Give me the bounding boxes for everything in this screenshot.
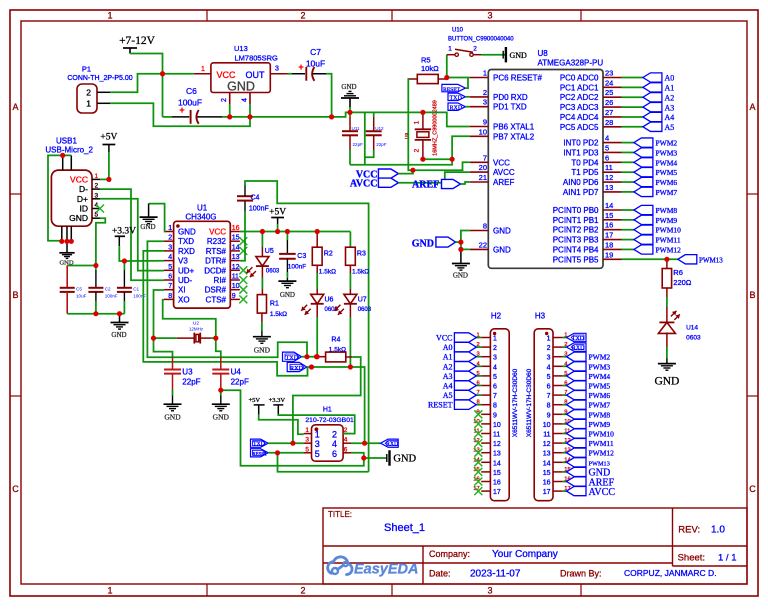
svg-text:2: 2 xyxy=(300,586,305,596)
svg-text:AREF: AREF xyxy=(493,178,514,187)
svg-text:GND: GND xyxy=(213,413,230,422)
svg-text:8: 8 xyxy=(483,222,487,231)
svg-text:15: 15 xyxy=(232,235,240,242)
svg-text:3: 3 xyxy=(315,439,320,449)
svg-text:13: 13 xyxy=(605,183,613,192)
svg-text:13: 13 xyxy=(543,451,551,458)
svg-text:U4: U4 xyxy=(231,368,242,377)
svg-text:3: 3 xyxy=(95,192,99,199)
svg-text:1.0: 1.0 xyxy=(711,525,725,536)
svg-text:25: 25 xyxy=(605,88,613,97)
svg-text:22pF: 22pF xyxy=(182,378,200,387)
svg-text:ID: ID xyxy=(80,204,89,214)
svg-text:PC0 ADC0: PC0 ADC0 xyxy=(560,74,599,83)
svg-text:USB-Micro_2: USB-Micro_2 xyxy=(45,145,93,154)
svg-text:14: 14 xyxy=(543,460,551,467)
svg-text:11: 11 xyxy=(605,163,613,172)
svg-text:15: 15 xyxy=(605,211,613,220)
svg-text:8: 8 xyxy=(547,403,551,410)
svg-text:4: 4 xyxy=(168,254,172,261)
svg-text:2: 2 xyxy=(493,345,497,352)
svg-text:4: 4 xyxy=(605,134,609,143)
svg-text:3: 3 xyxy=(547,355,551,362)
svg-text:PWM11: PWM11 xyxy=(656,236,681,245)
svg-text:+: + xyxy=(179,105,184,115)
svg-text:2: 2 xyxy=(86,88,91,98)
svg-text:RTS#: RTS# xyxy=(206,247,227,256)
svg-text:10uF: 10uF xyxy=(76,294,87,299)
svg-text:12: 12 xyxy=(232,264,240,271)
svg-text:H3: H3 xyxy=(535,312,546,321)
svg-text:DTR#: DTR# xyxy=(205,257,226,266)
svg-text:GND: GND xyxy=(341,83,356,91)
svg-text:CTS#: CTS# xyxy=(206,295,227,304)
svg-text:24: 24 xyxy=(605,78,613,87)
svg-text:22pF: 22pF xyxy=(376,142,387,147)
svg-text:1.5kΩ: 1.5kΩ xyxy=(319,269,336,276)
svg-text:ATMEGA328P-PU: ATMEGA328P-PU xyxy=(538,59,604,68)
svg-text:100nF: 100nF xyxy=(133,294,146,299)
svg-text:1: 1 xyxy=(305,427,309,434)
svg-text:PWM8: PWM8 xyxy=(589,410,611,419)
svg-text:XI: XI xyxy=(178,286,186,295)
svg-text:16: 16 xyxy=(605,221,613,230)
svg-text:PWM7: PWM7 xyxy=(656,188,678,197)
svg-text:X6511WV-17H-C30D60: X6511WV-17H-C30D60 xyxy=(526,368,533,437)
svg-text:0603: 0603 xyxy=(358,307,372,313)
svg-text:+3.3V: +3.3V xyxy=(112,227,136,237)
svg-text:PWM10: PWM10 xyxy=(656,226,682,235)
svg-text:3: 3 xyxy=(483,98,487,107)
svg-text:C: C xyxy=(749,484,756,494)
svg-text:GND: GND xyxy=(69,213,88,223)
svg-text:U12: U12 xyxy=(375,126,384,131)
svg-text:RXD: RXD xyxy=(572,346,585,352)
svg-text:13: 13 xyxy=(232,254,240,261)
svg-text:GND: GND xyxy=(164,413,181,422)
svg-text:C1: C1 xyxy=(133,287,139,292)
svg-text:AVCC: AVCC xyxy=(493,168,515,177)
svg-text:26: 26 xyxy=(605,98,613,107)
svg-text:AIN1 PD7: AIN1 PD7 xyxy=(563,188,599,197)
svg-text:+5V: +5V xyxy=(100,133,117,143)
svg-text:GND: GND xyxy=(493,227,511,236)
svg-text:+: + xyxy=(298,62,303,72)
svg-text:1: 1 xyxy=(547,336,551,343)
svg-text:PCINT3 PB3: PCINT3 PB3 xyxy=(553,236,599,245)
svg-text:U7: U7 xyxy=(358,297,367,304)
svg-text:A3: A3 xyxy=(665,103,675,112)
svg-text:USB1: USB1 xyxy=(56,137,77,146)
svg-text:17: 17 xyxy=(543,489,551,496)
svg-text:9: 9 xyxy=(483,118,487,127)
svg-text:6: 6 xyxy=(168,274,172,281)
svg-text:T1 PD5: T1 PD5 xyxy=(571,168,599,177)
svg-text:XO: XO xyxy=(178,295,190,304)
svg-text:3: 3 xyxy=(168,244,172,251)
svg-text:TXD: TXD xyxy=(572,336,585,342)
svg-text:AVCC: AVCC xyxy=(589,487,616,498)
svg-text:U3: U3 xyxy=(182,368,193,377)
svg-text:AIN0 PD6: AIN0 PD6 xyxy=(563,178,599,187)
svg-text:GND: GND xyxy=(280,291,295,299)
svg-text:A: A xyxy=(12,102,18,112)
svg-text:3: 3 xyxy=(487,586,492,596)
svg-text:+7-12V: +7-12V xyxy=(119,35,156,47)
svg-text:PWM7: PWM7 xyxy=(589,401,611,410)
svg-text:P1: P1 xyxy=(82,65,91,74)
svg-text:5: 5 xyxy=(547,374,551,381)
svg-text:A5: A5 xyxy=(443,391,453,400)
svg-text:C: C xyxy=(12,484,19,494)
svg-text:A: A xyxy=(749,102,755,112)
svg-text:PCINT2 PB2: PCINT2 PB2 xyxy=(553,226,599,235)
svg-text:PWM5: PWM5 xyxy=(589,382,611,391)
svg-text:GND: GND xyxy=(111,331,126,339)
svg-text:1: 1 xyxy=(95,173,99,180)
svg-text:1: 1 xyxy=(448,46,452,53)
svg-text:A5: A5 xyxy=(665,123,675,132)
svg-text:GND: GND xyxy=(227,80,255,94)
svg-text:3: 3 xyxy=(275,66,279,73)
svg-text:12: 12 xyxy=(543,441,551,448)
svg-text:1: 1 xyxy=(483,69,487,78)
svg-text:C3: C3 xyxy=(297,253,306,260)
svg-text:B: B xyxy=(12,290,18,300)
svg-text:PB6 XTAL1: PB6 XTAL1 xyxy=(493,123,535,132)
svg-text:REV:: REV: xyxy=(678,525,700,536)
svg-text:PCINT0 PB0: PCINT0 PB0 xyxy=(553,206,599,215)
svg-text:LM7805SRG: LM7805SRG xyxy=(235,54,279,63)
svg-text:GND: GND xyxy=(453,272,468,280)
svg-text:CORPUZ, JANMARC D.: CORPUZ, JANMARC D. xyxy=(624,568,717,578)
svg-text:PC5 ADC5: PC5 ADC5 xyxy=(560,123,599,132)
svg-text:100nF: 100nF xyxy=(249,206,269,213)
svg-text:CH340G: CH340G xyxy=(185,213,216,222)
svg-text:20: 20 xyxy=(479,163,487,172)
svg-text:9: 9 xyxy=(493,412,497,419)
svg-text:PWM12: PWM12 xyxy=(656,245,682,254)
svg-text:PWM12: PWM12 xyxy=(589,449,615,458)
svg-text:U1: U1 xyxy=(197,204,208,213)
svg-text:BUTTON_C9900040040: BUTTON_C9900040040 xyxy=(448,37,514,43)
svg-text:19: 19 xyxy=(605,250,613,259)
svg-text:X6511WV-17H-C30D60: X6511WV-17H-C30D60 xyxy=(512,368,519,437)
svg-text:RXD: RXD xyxy=(290,365,304,372)
svg-text:RESET: RESET xyxy=(428,401,453,410)
svg-text:5: 5 xyxy=(605,143,609,152)
svg-text:1: 1 xyxy=(107,586,112,596)
svg-text:6: 6 xyxy=(605,153,609,162)
svg-text:7: 7 xyxy=(547,393,551,400)
svg-text:Your Company: Your Company xyxy=(492,549,558,560)
svg-text:1.5kΩ: 1.5kΩ xyxy=(270,311,287,318)
svg-text:4: 4 xyxy=(547,364,551,371)
svg-text:U6: U6 xyxy=(325,297,334,304)
svg-text:Drawn By:: Drawn By: xyxy=(560,569,602,579)
svg-text:1: 1 xyxy=(168,225,172,232)
svg-text:10: 10 xyxy=(479,127,487,136)
svg-text:INT1 PD3: INT1 PD3 xyxy=(563,148,599,157)
svg-text:GND: GND xyxy=(654,376,679,388)
svg-text:PWM2: PWM2 xyxy=(589,353,611,362)
svg-text:100nF: 100nF xyxy=(105,294,118,299)
svg-text:AVCC: AVCC xyxy=(350,179,378,190)
svg-text:B: B xyxy=(749,290,755,300)
svg-text:PWM4: PWM4 xyxy=(589,372,611,381)
svg-text:PWM2: PWM2 xyxy=(656,139,678,148)
svg-text:PC6 RESET#: PC6 RESET# xyxy=(493,74,542,83)
svg-text:PCINT4 PB4: PCINT4 PB4 xyxy=(553,245,599,254)
svg-text:5: 5 xyxy=(315,449,320,459)
svg-text:5: 5 xyxy=(305,446,309,453)
svg-text:VCC: VCC xyxy=(436,334,452,343)
svg-text:6: 6 xyxy=(547,384,551,391)
svg-text:GND: GND xyxy=(140,223,155,231)
svg-text:4: 4 xyxy=(241,98,248,102)
svg-text:1 / 1: 1 / 1 xyxy=(718,553,737,564)
svg-text:1.5kΩ: 1.5kΩ xyxy=(352,269,369,276)
svg-text:C5: C5 xyxy=(76,287,82,292)
svg-text:4: 4 xyxy=(493,364,497,371)
svg-text:PWM9: PWM9 xyxy=(589,420,611,429)
svg-text:2: 2 xyxy=(332,430,337,440)
svg-text:2: 2 xyxy=(300,11,305,21)
svg-text:TXD: TXD xyxy=(178,237,194,246)
svg-text:14: 14 xyxy=(493,460,501,467)
svg-text:RESET: RESET xyxy=(443,87,461,93)
svg-text:9: 9 xyxy=(232,293,236,300)
svg-text:RESET: RESET xyxy=(253,452,268,457)
svg-text:A2: A2 xyxy=(443,362,453,371)
svg-text:PWM4: PWM4 xyxy=(656,158,678,167)
svg-text:A0: A0 xyxy=(665,74,675,83)
svg-text:8: 8 xyxy=(493,403,497,410)
svg-text:2: 2 xyxy=(221,98,228,102)
svg-text:U5: U5 xyxy=(265,248,274,255)
svg-text:A2: A2 xyxy=(665,93,675,102)
svg-text:GND: GND xyxy=(493,245,511,254)
svg-text:Date:: Date: xyxy=(429,569,451,579)
svg-text:18: 18 xyxy=(605,240,613,249)
svg-text:11: 11 xyxy=(543,432,550,439)
svg-text:PWM11: PWM11 xyxy=(589,439,614,448)
svg-text:7: 7 xyxy=(168,283,172,290)
svg-text:PWM6: PWM6 xyxy=(589,391,611,400)
svg-text:T0 PD4: T0 PD4 xyxy=(571,158,599,167)
svg-text:A1: A1 xyxy=(665,84,675,93)
svg-text:PC3 ADC3: PC3 ADC3 xyxy=(560,103,599,112)
svg-text:UD+: UD+ xyxy=(178,266,195,275)
svg-text:PWM13: PWM13 xyxy=(589,460,610,467)
svg-text:6: 6 xyxy=(332,449,337,459)
svg-text:Company:: Company: xyxy=(429,549,470,559)
svg-text:U14: U14 xyxy=(686,325,698,332)
svg-text:R4: R4 xyxy=(331,337,340,344)
svg-text:15: 15 xyxy=(493,470,501,477)
svg-text:CONN-TH_2P-P5.00: CONN-TH_2P-P5.00 xyxy=(67,75,132,82)
svg-text:3: 3 xyxy=(305,437,309,444)
svg-text:R1: R1 xyxy=(270,301,279,308)
svg-text:2: 2 xyxy=(483,88,487,97)
svg-text:+3.3V: +3.3V xyxy=(269,397,286,404)
svg-text:R3: R3 xyxy=(357,251,366,258)
svg-text:+5V: +5V xyxy=(269,208,286,218)
svg-text:10uF: 10uF xyxy=(306,59,325,69)
svg-text:VCC: VCC xyxy=(70,174,88,184)
svg-text:4: 4 xyxy=(332,439,337,449)
svg-text:1: 1 xyxy=(493,336,497,343)
svg-text:TXD: TXD xyxy=(286,355,299,362)
svg-text:5: 5 xyxy=(493,374,497,381)
svg-text:C6: C6 xyxy=(186,86,197,96)
svg-text:4: 4 xyxy=(344,437,348,444)
svg-text:0603: 0603 xyxy=(686,335,701,342)
svg-text:17: 17 xyxy=(605,231,613,240)
svg-text:TITLE:: TITLE: xyxy=(328,510,352,519)
svg-text:1: 1 xyxy=(86,99,91,109)
svg-text:R2: R2 xyxy=(324,251,333,258)
svg-text:11: 11 xyxy=(232,274,239,281)
svg-text:2023-11-07: 2023-11-07 xyxy=(470,569,521,580)
svg-text:U10: U10 xyxy=(452,28,464,34)
svg-text:14: 14 xyxy=(232,244,240,251)
svg-text:H1: H1 xyxy=(323,407,332,414)
svg-text:100nF: 100nF xyxy=(288,264,306,271)
svg-text:11: 11 xyxy=(493,432,500,439)
svg-text:INT0 PD2: INT0 PD2 xyxy=(563,139,599,148)
svg-text:U13: U13 xyxy=(234,44,248,53)
svg-text:PWM6: PWM6 xyxy=(656,178,678,187)
svg-text:27: 27 xyxy=(605,108,613,117)
svg-text:1: 1 xyxy=(201,66,205,73)
svg-text:TXD: TXD xyxy=(253,442,265,448)
svg-text:9: 9 xyxy=(547,412,551,419)
svg-text:PWM8: PWM8 xyxy=(656,206,678,215)
svg-text:7: 7 xyxy=(483,153,487,162)
svg-text:UD-: UD- xyxy=(178,276,193,285)
svg-text:6: 6 xyxy=(344,446,348,453)
svg-text:Sheet:: Sheet: xyxy=(678,553,705,564)
svg-text:PWM3: PWM3 xyxy=(656,148,678,157)
svg-text:2: 2 xyxy=(168,235,172,242)
svg-text:GND: GND xyxy=(510,51,528,60)
svg-text:10kΩ: 10kΩ xyxy=(421,64,439,73)
svg-text:PWM10: PWM10 xyxy=(589,430,615,439)
svg-text:RXD: RXD xyxy=(450,105,463,111)
svg-text:PC4 ADC4: PC4 ADC4 xyxy=(560,113,599,122)
svg-text:16: 16 xyxy=(493,480,501,487)
svg-text:2: 2 xyxy=(473,46,477,53)
svg-text:PB7 XTAL2: PB7 XTAL2 xyxy=(493,132,535,141)
svg-text:17: 17 xyxy=(493,489,501,496)
svg-text:PD0 RXD: PD0 RXD xyxy=(493,93,528,102)
svg-text:DCD#: DCD# xyxy=(204,266,226,275)
svg-text:8: 8 xyxy=(168,293,172,300)
svg-text:AREF: AREF xyxy=(412,179,439,190)
svg-text:10: 10 xyxy=(232,283,240,290)
svg-text:A4: A4 xyxy=(665,113,675,122)
svg-text:D-: D- xyxy=(79,184,88,194)
svg-text:3: 3 xyxy=(493,355,497,362)
svg-text:A1: A1 xyxy=(443,353,453,362)
svg-text:Sheet_1: Sheet_1 xyxy=(384,522,425,534)
svg-text:PWM13: PWM13 xyxy=(699,256,723,264)
svg-text:RXD: RXD xyxy=(386,442,398,448)
svg-text:GND: GND xyxy=(178,228,196,237)
svg-text:28: 28 xyxy=(605,118,613,127)
svg-text:C7: C7 xyxy=(310,47,321,57)
svg-text:PWM9: PWM9 xyxy=(656,216,678,225)
svg-text:5: 5 xyxy=(168,264,172,271)
svg-text:GND: GND xyxy=(254,346,271,355)
svg-text:1: 1 xyxy=(107,11,112,21)
svg-text:16: 16 xyxy=(543,480,551,487)
svg-text:PWM5: PWM5 xyxy=(656,168,678,177)
svg-text:220Ω: 220Ω xyxy=(673,278,692,287)
svg-text:C2: C2 xyxy=(105,287,111,292)
svg-text:12MHz: 12MHz xyxy=(189,327,204,332)
svg-text:22pF: 22pF xyxy=(231,378,249,387)
svg-text:13: 13 xyxy=(493,451,501,458)
svg-text:OUT: OUT xyxy=(246,70,266,80)
svg-text:H2: H2 xyxy=(491,312,502,321)
svg-text:PWM3: PWM3 xyxy=(589,362,611,371)
svg-text:A4: A4 xyxy=(443,382,453,391)
svg-text:22pF: 22pF xyxy=(353,142,364,147)
svg-text:DSR#: DSR# xyxy=(205,286,227,295)
svg-text:10: 10 xyxy=(493,422,501,429)
svg-text:VCC: VCC xyxy=(493,158,510,167)
svg-text:PC2 ADC2: PC2 ADC2 xyxy=(560,93,599,102)
svg-text:RXD: RXD xyxy=(178,247,195,256)
svg-text:TXD: TXD xyxy=(450,96,463,102)
svg-text:V3: V3 xyxy=(178,257,188,266)
svg-text:EasyEDA: EasyEDA xyxy=(354,562,418,578)
svg-text:2: 2 xyxy=(414,148,421,152)
svg-text:A0: A0 xyxy=(443,343,453,352)
svg-text:22: 22 xyxy=(479,240,487,249)
svg-text:1: 1 xyxy=(315,430,320,440)
svg-text:PCINT1 PB1: PCINT1 PB1 xyxy=(553,216,599,225)
svg-text:GND: GND xyxy=(393,454,416,465)
svg-text:A3: A3 xyxy=(443,372,453,381)
svg-text:R232: R232 xyxy=(207,237,227,246)
svg-text:10: 10 xyxy=(543,422,551,429)
svg-text:VCC: VCC xyxy=(209,228,226,237)
svg-text:PC1 ADC1: PC1 ADC1 xyxy=(560,83,599,92)
svg-text:15: 15 xyxy=(543,470,551,477)
svg-text:14: 14 xyxy=(605,201,613,210)
svg-text:23: 23 xyxy=(605,69,613,78)
svg-text:RI#: RI# xyxy=(214,276,227,285)
svg-text:PCINT5 PB5: PCINT5 PB5 xyxy=(553,255,599,264)
svg-text:2: 2 xyxy=(95,183,99,190)
svg-text:PD1 TXD: PD1 TXD xyxy=(493,103,527,112)
svg-text:21: 21 xyxy=(479,173,487,182)
svg-text:GND: GND xyxy=(412,238,434,249)
svg-text:R6: R6 xyxy=(673,268,683,277)
svg-text:3: 3 xyxy=(487,11,492,21)
svg-text:D+: D+ xyxy=(77,194,88,204)
svg-text:12: 12 xyxy=(605,173,613,182)
svg-text:VCC: VCC xyxy=(217,70,237,80)
svg-text:210-72-03GB01: 210-72-03GB01 xyxy=(305,417,354,424)
svg-text:16MHZ_C9900002489: 16MHZ_C9900002489 xyxy=(433,100,439,156)
svg-text:U11: U11 xyxy=(352,126,361,131)
svg-text:7: 7 xyxy=(493,393,497,400)
svg-text:2: 2 xyxy=(547,345,551,352)
